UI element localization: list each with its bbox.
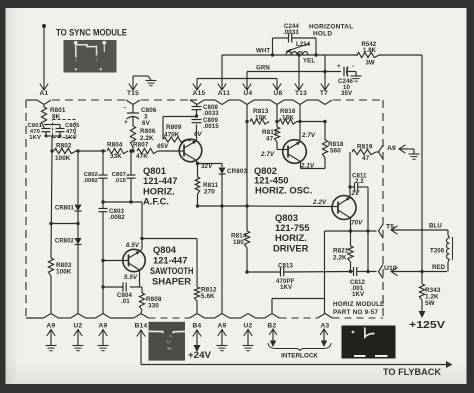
svg-text:U2: U2 <box>74 323 83 330</box>
wire U4 riser into module <box>246 105 248 207</box>
ground arrows A9 U2 A9 bottom left <box>47 330 55 337</box>
wire T5 row <box>325 230 377 232</box>
wire WHT A11 riser <box>221 55 223 90</box>
node junction emitter T5 <box>349 229 352 232</box>
svg-text:R802: R802 <box>56 143 72 150</box>
svg-text:47: 47 <box>362 155 370 162</box>
resistor R816 18K <box>279 119 297 124</box>
svg-text:33K: 33K <box>110 153 122 160</box>
ground arrows A9 U2 bottom middle <box>218 330 226 337</box>
wire R817 to Q802 base <box>276 142 278 150</box>
svg-text:A15: A15 <box>193 90 206 97</box>
svg-text:HOLD: HOLD <box>313 31 332 38</box>
L214 slug arrow <box>286 44 309 52</box>
svg-text:.0015: .0015 <box>203 123 219 130</box>
svg-text:270: 270 <box>204 189 215 196</box>
svg-text:YEL: YEL <box>303 58 315 65</box>
svg-text:B4: B4 <box>193 323 202 330</box>
wire top bus dashed segment T15-A15 <box>141 99 189 101</box>
capacitor C811 2.2 <box>350 186 355 188</box>
svg-text:330: 330 <box>148 303 159 310</box>
node junction U4 column <box>245 204 248 207</box>
capacitor C812 .001 1KV <box>351 271 354 273</box>
svg-text:5.6K: 5.6K <box>201 293 215 300</box>
svg-text:A3: A3 <box>321 323 330 330</box>
svg-text:47: 47 <box>266 136 274 143</box>
resistor R819 47 <box>352 149 376 154</box>
terminal T15 arrow and ground hook <box>129 84 137 91</box>
resistor R813 10K <box>250 119 269 124</box>
svg-text:T13: T13 <box>295 90 307 97</box>
svg-text:A.F.C.: A.F.C. <box>143 196 169 207</box>
wire R807 to Q801 base <box>158 150 184 152</box>
svg-text:PART NO 9-57: PART NO 9-57 <box>333 309 378 316</box>
svg-text:.01: .01 <box>121 298 130 305</box>
svg-text:1KV: 1KV <box>280 284 293 291</box>
svg-text:CR803: CR803 <box>227 168 247 175</box>
svg-text:R806: R806 <box>140 128 156 135</box>
terminal T5 <box>379 224 384 238</box>
terminal B14 to flyback line <box>137 330 145 337</box>
resistor R817 47 <box>274 127 279 142</box>
node junction U10 <box>366 270 369 273</box>
svg-text:A11: A11 <box>218 90 231 97</box>
svg-text:SAWTOOTH: SAWTOOTH <box>150 265 194 276</box>
transistor Q804 <box>123 249 145 271</box>
svg-text:R809: R809 <box>166 124 182 131</box>
svg-text:121-447: 121-447 <box>143 175 177 186</box>
capacitor C808 .0033 <box>192 106 202 108</box>
svg-text:2.2: 2.2 <box>355 178 364 185</box>
svg-text:.0082: .0082 <box>83 178 98 184</box>
wire vertical A9 left column <box>51 151 52 258</box>
wire T7 riser and R542 tap <box>324 55 326 72</box>
wire vertical A9 second column x103 <box>102 151 104 175</box>
resistor R808 330 <box>140 286 143 288</box>
svg-text:T206: T206 <box>430 248 445 255</box>
svg-text:47K: 47K <box>136 153 148 160</box>
svg-text:121-447: 121-447 <box>153 255 187 266</box>
wire A9 third column <box>221 206 223 314</box>
diode CR802 <box>75 238 82 245</box>
capacitor C805 in dashed box <box>56 128 65 130</box>
svg-text:SHAPER: SHAPER <box>152 276 191 287</box>
node junction Q804 base <box>101 259 104 262</box>
svg-text:.015: .015 <box>114 178 126 184</box>
wire A15-U8 link y=78.5 <box>196 79 198 91</box>
svg-text:1KV: 1KV <box>352 291 365 298</box>
wire T13 riser to Q802 collector <box>299 105 301 143</box>
wire GRN U4 riser <box>246 72 248 91</box>
resistor R343 1.2K 5W <box>421 272 423 285</box>
node junction x368 T5 <box>366 229 369 232</box>
svg-text:470K: 470K <box>164 132 180 139</box>
svg-text:U8: U8 <box>274 90 283 97</box>
resistor R818 560 <box>322 140 327 158</box>
node junction R343 tap <box>420 270 423 273</box>
capacitor C809 .0015 <box>192 119 202 121</box>
node junction rail T13 <box>298 120 301 123</box>
svg-text:RED: RED <box>432 264 446 271</box>
node junction sawtooth top <box>101 200 104 203</box>
svg-text:-: - <box>352 63 354 70</box>
terminal B2 double arrow <box>269 329 277 335</box>
svg-text:A9: A9 <box>47 323 56 330</box>
transistor Q803 <box>332 196 356 220</box>
wire R542 down right side <box>421 55 423 271</box>
resistor R802 100K <box>54 148 76 153</box>
resistor R542 1.8K 3W <box>357 52 379 57</box>
resistor R812 5.6K <box>194 287 199 301</box>
svg-text:U2: U2 <box>244 323 253 330</box>
svg-text:HORIZ.: HORIZ. <box>275 232 307 243</box>
resistor R806 2.2K <box>132 117 134 126</box>
wire main row y=151 <box>76 150 106 152</box>
capacitor C804 .01 <box>130 286 140 288</box>
wire R801 bottom to caps <box>43 127 45 129</box>
wire Q802 emitter to R818 <box>300 162 302 169</box>
resistor R807 47K <box>137 148 158 153</box>
node junction C808 C809 <box>195 114 198 117</box>
svg-text:L214: L214 <box>296 41 311 48</box>
svg-text:+24V: +24V <box>188 350 211 360</box>
svg-text:35V: 35V <box>341 90 353 97</box>
wire collector to R812 <box>142 238 197 240</box>
diode CR803 <box>219 168 226 175</box>
wire top bus dashed segment T7-corner <box>333 99 383 101</box>
diode CR801 <box>77 202 79 204</box>
svg-text:TO SYNC MODULE: TO SYNC MODULE <box>56 28 127 39</box>
node junction rail U8 <box>275 120 278 123</box>
svg-text:WHT: WHT <box>256 48 270 55</box>
svg-text:5W: 5W <box>425 300 435 307</box>
node junction R802 right <box>76 149 79 152</box>
node junction emitter CR803 branch <box>196 162 199 165</box>
wire top bus dashed segment A1-T15 <box>52 99 125 101</box>
wire Q804 emitter <box>139 270 141 287</box>
svg-text:6V: 6V <box>194 131 203 138</box>
node junction x103 <box>101 149 104 152</box>
svg-text:.0033: .0033 <box>203 110 219 117</box>
wire T13 riser <box>297 53 300 56</box>
wire U8 riser <box>276 105 278 128</box>
svg-text:1KV: 1KV <box>29 135 41 141</box>
svg-text:+: + <box>337 63 341 70</box>
node junction T15 column <box>131 149 134 152</box>
wire AFC output row y=206 <box>196 204 199 207</box>
svg-text:HORIZ MODULE: HORIZ MODULE <box>333 301 385 308</box>
resistor R801 <box>43 105 45 108</box>
wire Q804 collector riser <box>140 249 143 252</box>
wire bottom bus dashed segment under box2 <box>149 317 191 319</box>
transformer T206 external <box>391 226 398 234</box>
resistor R804 33K <box>107 148 128 153</box>
capacitor C803 .0082 <box>102 202 104 209</box>
svg-text:A9: A9 <box>218 323 227 330</box>
svg-text:2.2K: 2.2K <box>333 255 347 262</box>
node junction rail left <box>245 120 248 123</box>
svg-text:6V: 6V <box>142 120 151 127</box>
svg-text:R807: R807 <box>133 142 149 149</box>
waveform photo box sync pulses <box>64 40 117 73</box>
wire module boundary right dashed <box>382 100 384 318</box>
svg-text:+125V: +125V <box>409 320 445 331</box>
waveform photo box flyback pulse <box>342 326 396 359</box>
interlock bracket <box>268 343 331 351</box>
wire Q803 base feed <box>247 205 338 208</box>
resistor R811 270 <box>195 177 199 194</box>
svg-text:Q804: Q804 <box>153 244 177 255</box>
resistor R821 2.2K <box>350 231 352 246</box>
svg-text:70V: 70V <box>351 220 363 227</box>
capacitor C806 electrolytic <box>132 105 134 114</box>
transistor Q801 <box>179 139 202 162</box>
svg-text:CR801: CR801 <box>55 206 75 212</box>
inductor L214 horizontal coil <box>273 54 359 56</box>
terminal U10 <box>379 265 384 279</box>
svg-text:T7: T7 <box>320 90 328 97</box>
svg-text:B2: B2 <box>268 323 277 330</box>
svg-text:B14: B14 <box>135 323 148 330</box>
node junction rail R818 <box>323 120 326 123</box>
svg-text:R819: R819 <box>357 144 373 151</box>
resistor R809 470K feedback <box>162 117 164 140</box>
svg-text:65V: 65V <box>157 143 169 150</box>
svg-text:GRN: GRN <box>256 65 270 72</box>
svg-text:2.2V: 2.2V <box>312 199 327 206</box>
svg-text:BLU: BLU <box>429 223 442 230</box>
wire module boundary left dashed <box>25 100 27 318</box>
svg-text:8.5V: 8.5V <box>126 242 140 249</box>
svg-text:HORIZONTAL: HORIZONTAL <box>309 24 353 31</box>
svg-text:R804: R804 <box>107 142 123 149</box>
terminal B4 +24V <box>193 330 201 337</box>
svg-text:2.7V: 2.7V <box>301 132 316 139</box>
transistor Q802 <box>283 140 307 164</box>
capacitor C244 .0033 loop <box>272 38 274 55</box>
terminal arrows top <box>193 84 201 91</box>
svg-text:CR802: CR802 <box>55 239 75 245</box>
capacitor C246 10 35V electrolytic <box>343 67 345 77</box>
svg-text:A1: A1 <box>40 90 49 97</box>
wire x368 down to U10 row <box>367 231 369 272</box>
svg-text:R821: R821 <box>333 248 349 255</box>
waveform photo box B14 sawtooth <box>149 322 186 361</box>
wire collector to R819 corner <box>349 152 351 187</box>
capacitor C813 470PF 1KV <box>245 270 248 273</box>
wire sawtooth node horizontal <box>103 201 142 203</box>
terminal A3 double arrow <box>320 329 328 335</box>
wire Q804 base <box>103 260 129 262</box>
resistor R814 180 <box>246 206 248 231</box>
svg-text:3W: 3W <box>366 61 375 67</box>
svg-text:C813: C813 <box>278 263 293 270</box>
svg-text:180: 180 <box>233 239 244 246</box>
wire Q801 collector riser <box>196 139 197 142</box>
svg-text:A9: A9 <box>99 323 108 330</box>
node junction R802 left <box>50 149 53 152</box>
svg-text:1KV: 1KV <box>65 135 77 141</box>
wire top bus solid segments with terminal notches <box>26 99 37 101</box>
svg-text:100K: 100K <box>55 155 71 162</box>
wire bottom bus with terminal bumps <box>26 317 44 319</box>
svg-text:A9: A9 <box>387 145 396 152</box>
node A1 external feed wire with dot <box>42 24 46 28</box>
node junction C244 right YEL <box>314 53 317 56</box>
svg-text:10K: 10K <box>255 115 267 122</box>
svg-text:INTERLOCK: INTERLOCK <box>281 353 318 360</box>
wire Q803 emitter <box>350 218 352 231</box>
node junction x131 <box>129 149 132 152</box>
wire B2-A3 interlock rectangle and T5 drop <box>324 231 326 314</box>
svg-text:560: 560 <box>330 148 341 155</box>
node junction C804 <box>101 285 104 288</box>
svg-text:1.8K: 1.8K <box>363 48 377 54</box>
svg-text:U4: U4 <box>244 90 253 97</box>
svg-text:18K: 18K <box>282 115 294 122</box>
wire Q803 collector riser <box>349 187 351 198</box>
svg-text:.0033: .0033 <box>283 29 299 36</box>
svg-text:.0082: .0082 <box>109 214 125 221</box>
svg-text:100K: 100K <box>56 269 72 276</box>
ground C246 <box>348 71 357 73</box>
svg-text:2.7V: 2.7V <box>260 151 275 158</box>
terminal A9 right <box>379 145 384 159</box>
wire Q801 emitter <box>196 160 198 163</box>
node junction x131 bottom <box>129 200 132 203</box>
node junction C811 <box>348 185 351 188</box>
wire bottom bus dashed segment A3-right corner <box>333 317 384 319</box>
capacitor C801 <box>42 128 51 130</box>
svg-text:+: + <box>124 119 128 126</box>
svg-text:T15: T15 <box>127 90 139 97</box>
node junction Q804 collector <box>140 237 143 240</box>
svg-text:2.2K: 2.2K <box>140 135 154 142</box>
wire bottom bus dashed segment B2-A3 <box>280 317 318 319</box>
capacitor C807 .015 <box>127 174 136 176</box>
node junction C244 left <box>271 53 274 56</box>
svg-text:5.5V: 5.5V <box>124 274 138 281</box>
svg-text:2V: 2V <box>351 190 361 197</box>
svg-text:HORIZ. OSC.: HORIZ. OSC. <box>255 185 312 196</box>
resistor R803 100K <box>48 258 53 276</box>
svg-text:DRIVER: DRIVER <box>273 243 309 254</box>
wire caps bottom to R802 <box>45 132 47 136</box>
wire C807 column x131 <box>130 151 132 175</box>
wire CR junction to R803 column <box>49 222 52 225</box>
capacitor C802 .0082 <box>99 174 108 176</box>
wire vertical U2 column <box>77 151 79 202</box>
